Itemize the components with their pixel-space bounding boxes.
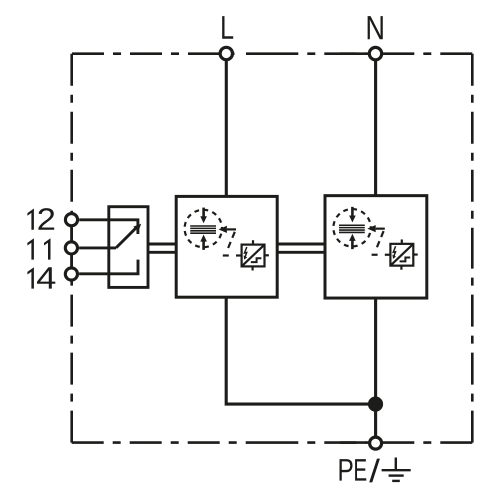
remote signalling changeover contact K1 <box>79 207 148 288</box>
module 1 box <box>176 196 277 297</box>
module 1 spark gap bottom arrow <box>202 241 205 250</box>
wire module 1 bottom to PE junction <box>226 297 375 404</box>
enclosure border right (dash-dot) <box>471 54 474 443</box>
wire L terminal to module 1 <box>225 60 228 196</box>
surge arrester module 1 (L-PE) <box>176 196 277 297</box>
border bridge into N terminal <box>340 52 367 55</box>
terminal 12 <box>65 214 77 226</box>
junction node (L/N to PE) <box>368 397 383 412</box>
label terminal 11 <box>27 238 50 259</box>
surge arrester module 2 (N-PE) <box>325 196 427 298</box>
module 2 spark gap top arrow <box>351 207 354 217</box>
module 2 trigger box step wave <box>400 258 411 262</box>
enclosure border bottom (dash-dot) <box>72 441 473 444</box>
enclosure border left (dash-dot) <box>70 54 73 443</box>
contact mover arrowhead <box>133 224 141 232</box>
bus link module 1 to module 2 (double line) <box>277 244 325 252</box>
module 1 trigger box step wave <box>251 258 262 262</box>
module 1 trigger box lightning bolt <box>245 247 247 257</box>
bus link contact to module 1 (double line) <box>148 244 176 252</box>
label terminal 12 <box>27 208 54 230</box>
module 2 trigger arrow <box>367 225 375 232</box>
module 2 trigger device box <box>385 239 418 269</box>
module 2 spark gap bottom arrow <box>351 240 354 249</box>
module 1 spark gap top arrow <box>202 208 205 218</box>
module 2 trigger box lightning bolt <box>393 246 395 256</box>
border gap right of L terminal <box>235 51 239 57</box>
module 2 spark gap electrode stack <box>339 225 365 232</box>
terminal 14 <box>65 268 77 280</box>
wire terminal 12 to contact <box>79 220 138 234</box>
module 2 box <box>325 196 427 298</box>
module 1 spark gap electrode stack <box>190 226 216 233</box>
module 1 trigger device box <box>236 240 269 270</box>
contact box <box>109 207 148 288</box>
terminal 11 <box>65 242 77 254</box>
earth ground symbol <box>382 458 411 481</box>
label N <box>368 16 383 39</box>
wire N terminal to module 2 <box>374 60 377 196</box>
module 1 trigger arrow <box>219 226 227 233</box>
enclosure border left solid segment through signal terminals <box>70 212 73 282</box>
border bridge into PE terminal <box>340 441 367 444</box>
label terminal 14 <box>27 267 55 288</box>
wire terminal 14 to contact <box>79 260 138 274</box>
module 2 trigger dashed link <box>376 231 383 249</box>
enclosure border top (dash-dot) <box>72 52 472 55</box>
module 1 trigger dashed link <box>227 232 234 250</box>
label PE/ <box>340 459 380 483</box>
terminal N <box>369 47 381 59</box>
wire module 2 bottom to PE terminal <box>374 298 377 437</box>
terminal PE <box>370 437 382 449</box>
module 2 spark gap dashed circle <box>333 209 370 246</box>
module 1 spark gap dashed circle <box>185 210 222 247</box>
contact mover arm <box>116 227 137 248</box>
label L <box>222 16 233 39</box>
terminal L <box>220 47 232 59</box>
wire terminal 11 to contact <box>79 246 116 249</box>
